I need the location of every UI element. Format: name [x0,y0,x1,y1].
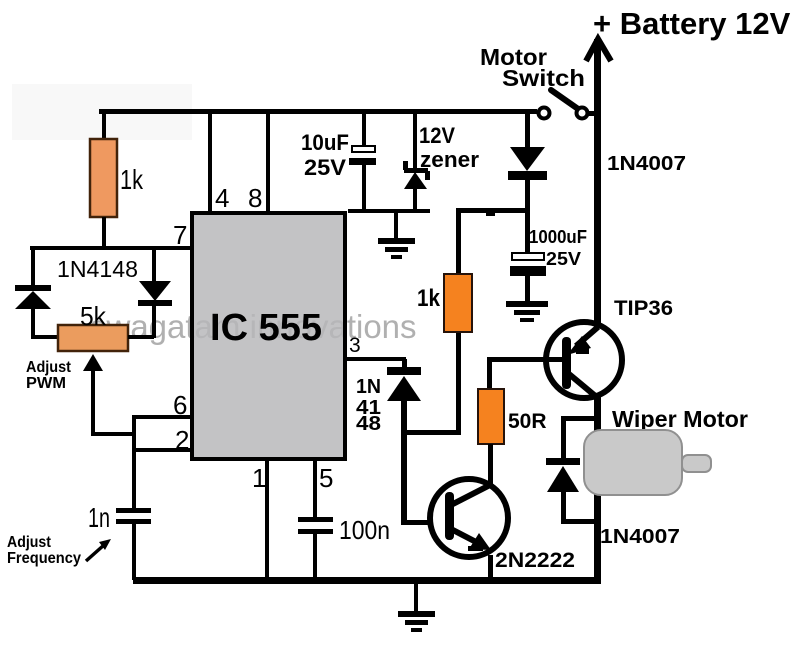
svg-text:2: 2 [175,425,189,455]
wire base to R3 [487,357,492,388]
resistor R1 1k [90,139,144,217]
wire C4 to ground rail [132,524,136,580]
wire D1 to pot left [31,309,59,339]
svg-text:6: 6 [173,390,187,420]
wire pin3 horizontal [345,357,406,361]
capacitor C5 100n [298,515,390,545]
wire R2 bottom to D3 node [456,333,461,433]
wire pin6/2 vertical down to C4 [132,415,136,509]
diode D1 1N4148 left [15,256,138,309]
svg-text:100n: 100n [339,515,390,545]
svg-text:1N4007: 1N4007 [607,153,686,175]
svg-text:1k: 1k [417,285,441,312]
svg-text:Adjust: Adjust [26,359,72,376]
wire top supply rail [99,109,537,114]
wire R3 to Q2 collector [488,444,493,485]
wire 10uF bottom [362,165,366,213]
pin 1 label [252,463,266,493]
wire 10uF top [362,112,366,146]
svg-text:4: 4 [215,183,229,213]
svg-text:25V: 25V [546,249,581,269]
ground rail bottom [133,577,601,584]
battery positive line [586,6,791,330]
wire pin4 to rail [208,112,212,213]
zener D6 12V [403,112,479,213]
svg-text:+ Battery 12V: + Battery 12V [593,6,791,41]
motor switch SW1 [480,44,598,119]
diode D3 1N4148 at pin3 [356,359,421,435]
svg-text:12V: 12V [419,123,455,148]
svg-text:1: 1 [252,463,266,493]
wire left branch down [31,246,35,288]
wire C5 to ground rail [313,534,317,580]
svg-text:1N: 1N [356,376,381,398]
wire Q2 emitter to ground rail [488,555,493,581]
svg-text:8: 8 [248,183,262,213]
svg-text:7: 7 [173,220,187,250]
pin 7 label [173,220,187,250]
svg-text:Adjust: Adjust [7,534,52,551]
capacitor C4 1n [88,502,151,533]
wire pin6 stub [134,415,192,419]
label 1N4007 top [607,153,686,175]
battery line lower (Q1 collector to rail) [594,395,601,580]
resistor R2 1k [417,274,472,332]
capacitor C1 10uF [301,130,376,180]
resistor R3 50R [478,389,547,444]
diode D5 1N4007 freewheel [546,416,680,548]
IC U1 555 [90,213,417,459]
wire pin8 to rail [266,112,270,213]
wire rail to R1 top [102,112,106,141]
svg-text:TIP36: TIP36 [614,297,673,320]
ground symbol bottom [398,584,435,632]
svg-text:5: 5 [319,463,333,493]
transistor Q1 TIP36 [546,297,673,399]
svg-text:zener: zener [420,147,479,172]
svg-text:5k: 5k [80,301,107,331]
wire R1 bottom to pin7 node [102,217,106,248]
svg-text:48: 48 [356,413,381,435]
svg-text:Frequency: Frequency [7,550,81,567]
svg-text:1k: 1k [120,164,144,195]
motor M1 wiper motor [584,406,748,495]
svg-text:PWM: PWM [26,375,66,392]
capacitor C2 1000uF [510,227,587,276]
wire D4 node to R2 [456,208,528,273]
svg-text:1000uF: 1000uF [529,227,587,247]
wire pin2 stub [134,448,192,452]
svg-text:1n: 1n [88,502,110,533]
pin 6 label [173,390,187,420]
pin 2 label [175,425,189,455]
transistor Q2 2N2222 [430,479,575,572]
svg-text:1N4007: 1N4007 [600,526,680,548]
ground zener node [378,213,415,259]
diode D4 1N4007 top [508,112,547,254]
wire pin5 down [313,459,317,517]
svg-text:Wiper Motor: Wiper Motor [612,406,748,432]
svg-text:3: 3 [349,334,361,357]
svg-text:2N2222: 2N2222 [495,549,575,572]
wire zener/10uF common [348,209,430,213]
svg-text:50R: 50R [508,410,547,433]
potentiometer VR1 5k [58,301,128,351]
svg-text:IC 555: IC 555 [210,307,322,349]
pin 4 label [215,183,229,213]
svg-text:10uF: 10uF [301,130,349,155]
pin 5 label [319,463,333,493]
svg-text:1N4148: 1N4148 [57,256,138,282]
wire D3 down to Q2 base node [401,401,461,525]
label adjust PWM [26,359,72,392]
diode D2 1N4148 right [128,246,172,339]
pot wiper arrow [83,354,136,436]
wire pin1 down to ground rail [265,459,269,580]
pin 3 label [349,334,361,357]
label adjust frequency [7,534,111,567]
wire Q2 base horizontal [402,520,446,525]
ground C2 [506,276,548,322]
svg-text:Switch: Switch [502,65,585,91]
wire pin7 horizontal [30,246,193,250]
pin 8 label [248,183,262,213]
svg-text:25V: 25V [304,155,346,180]
watermark swagatam innovations [12,84,417,345]
wire Q1 base [487,357,563,362]
